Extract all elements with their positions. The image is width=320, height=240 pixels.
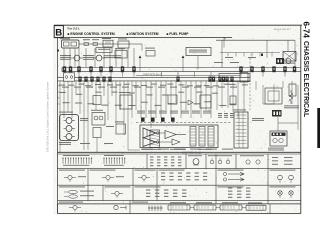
- svg-text:CHASSIS ELECTRICAL: CHASSIS ELECTRICAL: [302, 41, 309, 117]
- svg-text:■ IGNITION SYSTEM: ■ IGNITION SYSTEM: [127, 32, 159, 36]
- svg-text:For 2.0 L: For 2.0 L: [68, 27, 81, 31]
- svg-text:JOINT BOX (No.2): JOINT BOX (No.2): [182, 152, 201, 154]
- svg-text:MU–03 37B–03: MU–03 37B–03: [274, 29, 290, 31]
- svg-text:6-74: 6-74: [302, 22, 311, 39]
- svg-text:1987 626 (For 2.0L), Engine Co: 1987 626 (For 2.0L), Engine Control Syst…: [46, 82, 50, 152]
- svg-text:■ ENGINE CONTROL SYSTEM: ■ ENGINE CONTROL SYSTEM: [68, 32, 115, 36]
